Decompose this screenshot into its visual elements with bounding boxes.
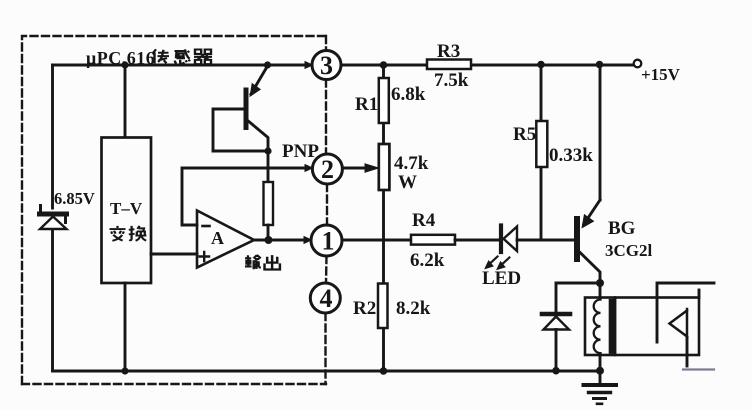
arrow into pin 3 — [305, 62, 313, 69]
wire T-V output to op-amp plus — [151, 253, 197, 256]
感 — [175, 49, 190, 63]
arrow potentiometer wiper — [365, 164, 379, 172]
node Q1 base-collector junction — [264, 147, 271, 154]
wire bottom rail — [53, 370, 601, 373]
svg-text:2: 2 — [321, 155, 334, 184]
wire op-amp output — [254, 239, 268, 242]
pin circle 4 — [310, 283, 340, 313]
relay contact tick — [698, 290, 701, 298]
svg-text:8.2k: 8.2k — [396, 298, 431, 319]
svg-text:A: A — [211, 228, 224, 248]
op-amp A — [197, 211, 254, 268]
node collector junction — [596, 279, 604, 287]
wire R1 top lead — [382, 65, 385, 78]
LED diode — [486, 226, 517, 270]
terminal +15V — [634, 60, 642, 68]
label 变换 (conversion) in T-V box — [110, 226, 126, 241]
svg-text:PNP: PNP — [282, 141, 319, 162]
wire internal resistor to output node — [267, 225, 270, 240]
svg-text:T–V: T–V — [110, 199, 143, 218]
svg-text:0.33k: 0.33k — [549, 145, 593, 166]
transistor Q2 BG 3CG21 — [577, 200, 600, 283]
node Q1 top junction — [264, 61, 271, 68]
op-amp plus sign — [200, 252, 210, 261]
svg-text:4.7k: 4.7k — [394, 153, 429, 174]
wire relay contact lead down — [686, 338, 689, 366]
resistor R1 6.8k — [379, 78, 389, 123]
wire R1 to potentiometer — [382, 123, 385, 144]
wire left vertical above zener — [51, 65, 54, 208]
resistor R5 0.33k — [536, 121, 547, 167]
svg-text:4: 4 — [320, 284, 333, 313]
diode freewheel — [542, 314, 570, 330]
relay core bar — [609, 299, 614, 354]
svg-text:1: 1 — [322, 227, 335, 256]
svg-text:7.5k: 7.5k — [434, 70, 469, 91]
wire diode to bottom rail — [555, 330, 558, 372]
出 — [265, 255, 280, 269]
arrow into pin 2 — [305, 165, 313, 172]
node T-V top junction — [121, 61, 128, 68]
svg-text:+15V: +15V — [641, 65, 681, 84]
label 传感器 (sensor) — [153, 49, 170, 63]
potentiometer W 4.7k — [379, 144, 390, 190]
wire T-V bottom lead — [124, 283, 127, 371]
pin circle 2 — [312, 154, 342, 184]
zener diode 6.85V — [40, 206, 67, 230]
pin circle 1 — [311, 225, 342, 256]
wire R5 bottom lead — [540, 167, 543, 240]
wire +15V emitter branch — [599, 65, 602, 200]
node output junction — [265, 236, 273, 244]
arrow into pin 1 — [304, 237, 312, 244]
dashed sensor box border — [22, 36, 327, 384]
变 — [110, 226, 126, 241]
wire pin1 to R4 — [342, 239, 411, 242]
输 — [245, 255, 261, 269]
resistor R2 8.2k — [378, 284, 388, 329]
relay contact triangle — [670, 309, 688, 338]
relay contact box — [615, 298, 699, 356]
svg-text:W: W — [398, 172, 417, 193]
label 输出 (output) — [245, 255, 261, 269]
resistor internal (unlabeled) — [264, 182, 274, 225]
node diode bottom junction — [552, 367, 560, 375]
wire R4 to LED — [455, 239, 499, 242]
wire T-V top lead — [124, 65, 127, 137]
smudge mark — [683, 368, 714, 370]
wire top rail right of pin 3 — [341, 64, 636, 67]
传 — [153, 49, 170, 63]
hand-drawn CJK glyphs — [110, 49, 280, 269]
svg-text:LED: LED — [482, 268, 521, 289]
svg-text:BG: BG — [608, 218, 636, 239]
svg-text:6.2k: 6.2k — [410, 250, 445, 271]
resistor R3 7.5k — [427, 60, 471, 70]
wire potentiometer to R2 — [382, 190, 385, 284]
node T-V bottom junction — [121, 367, 128, 374]
node column bottom junction — [380, 367, 388, 375]
svg-text:6.8k: 6.8k — [391, 84, 426, 105]
wire Q1 to internal resistor — [267, 151, 270, 182]
op-amp minus sign — [203, 225, 210, 228]
wire feedback loop to pin2 line — [182, 168, 307, 225]
transistor Q1 PNP diode-connected — [213, 66, 268, 151]
svg-text:R5: R5 — [513, 124, 536, 145]
wire collector to diode branch — [556, 283, 600, 311]
svg-text:R4: R4 — [412, 210, 436, 231]
T-V converter box U1 — [102, 138, 152, 284]
relay coil box K1 — [585, 298, 615, 356]
wire R2 bottom lead — [382, 328, 385, 371]
node emitter branch junction — [596, 61, 604, 69]
wire pin2 to potentiometer wiper — [342, 167, 367, 170]
node ground junction — [596, 367, 604, 375]
ground — [584, 385, 617, 404]
wire output to pin 1 — [268, 239, 305, 242]
svg-text:R3: R3 — [437, 41, 460, 62]
resistor R4 6.2k — [411, 235, 455, 245]
wire left vertical below zener — [51, 231, 54, 371]
svg-text:R2: R2 — [353, 298, 376, 319]
svg-text:6.85V: 6.85V — [54, 189, 95, 208]
换 — [129, 226, 147, 241]
node R5 top junction — [537, 61, 545, 69]
svg-text:3CG2l: 3CG2l — [605, 241, 653, 260]
svg-text:3: 3 — [320, 51, 333, 80]
svg-text:R1: R1 — [355, 94, 378, 115]
wire relay coil top lead — [599, 283, 602, 297]
wire relay contact common — [657, 283, 714, 342]
wire coil bottom to ground — [599, 355, 602, 383]
wire LED to Q2 base — [517, 239, 574, 242]
node column top junction — [380, 61, 388, 69]
wire R5 top lead — [540, 65, 543, 121]
svg-text:μPC.616: μPC.616 — [86, 48, 155, 68]
wire top rail left of pin 3 — [53, 64, 313, 67]
relay coil winding — [594, 300, 601, 354]
pin circle 3 — [312, 51, 341, 80]
器 — [194, 50, 212, 65]
